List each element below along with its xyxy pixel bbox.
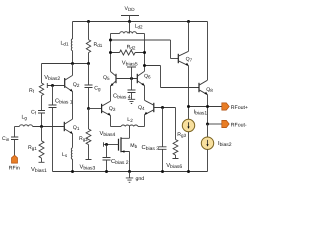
inductor Lg: [15, 115, 65, 127]
wire: bottom ground rail: [53, 171, 208, 173]
svg-text:Rf: Rf: [29, 88, 35, 94]
svg-text:Q6: Q6: [144, 74, 151, 80]
svg-text:Cbias 3: Cbias 3: [142, 144, 160, 152]
top rail (VDD): [73, 21, 208, 23]
node: Rd1 rail junction: [87, 20, 90, 23]
port RFin: [9, 140, 20, 172]
transistor Q1 (input, stage 1): [64, 119, 80, 148]
port RFout-: [222, 120, 247, 128]
capacitor Cin: [2, 127, 18, 142]
svg-text:Mb: Mb: [130, 143, 137, 149]
svg-text:Rg1: Rg1: [28, 145, 37, 151]
current source Ibias1: [182, 110, 207, 172]
svg-text:gnd: gnd: [136, 176, 145, 182]
node: Ibias1 junction on rail: [187, 170, 190, 173]
inductor Ld1: [61, 22, 73, 64]
wire: RFout+ takeoff: [189, 106, 222, 108]
wire: stage-2 output wire to Q7: [111, 40, 171, 59]
svg-text:Vbias2: Vbias2: [44, 75, 60, 82]
node: Vbias2/Cbias1 junction: [51, 84, 54, 87]
transistor Q7 (emitter follower): [171, 22, 193, 120]
transistor Q6 (cascode right): [137, 53, 151, 101]
svg-text:Q2: Q2: [73, 82, 80, 88]
node: VDD stub junction: [128, 20, 131, 23]
inductor L2 (tail, center-tapped to Mb): [111, 117, 145, 127]
port RFout+: [222, 103, 248, 111]
ground (under Cbias4): [128, 99, 135, 103]
svg-text:Ls: Ls: [62, 152, 68, 158]
node: Rd2 left junction: [109, 51, 112, 54]
node: Q3 base junction: [87, 107, 90, 110]
svg-text:Rd2: Rd2: [127, 44, 136, 50]
transistor Q3 (diff pair left): [89, 86, 116, 127]
Vbias4 terminal: [100, 131, 116, 147]
svg-text:Cf: Cf: [31, 110, 37, 116]
svg-text:Vbias3: Vbias3: [80, 164, 96, 171]
wire: Q8 base wire from Q6 collector leg: [145, 66, 200, 88]
node: Ibias2 junction: [206, 123, 209, 126]
resistor Rg1: [28, 127, 47, 175]
svg-text:RFin: RFin: [9, 166, 20, 172]
capacitor Cbias4: [113, 79, 136, 101]
node: Q7 collector junction: [187, 20, 190, 23]
inductor Ls (degeneration): [62, 148, 73, 172]
resistor Rd2: [111, 44, 145, 55]
svg-text:VDD: VDD: [125, 6, 136, 12]
node: Rd2 right junction: [143, 51, 146, 54]
resistor Rg2: [79, 109, 96, 172]
svg-text:Lg: Lg: [22, 115, 28, 121]
wire: Ld2 right leg: [144, 34, 146, 53]
svg-text:Cbias 2: Cbias 2: [111, 158, 129, 166]
svg-text:RFout+: RFout+: [231, 105, 248, 111]
transistor Q4 (diff pair right, mirrored): [138, 100, 154, 126]
node: Ls junction: [71, 170, 74, 173]
Vbias2 terminal: [44, 75, 64, 88]
transistor Q8 (output follower): [199, 80, 213, 124]
svg-text:Vbias5: Vbias5: [122, 60, 138, 67]
svg-text:Rg3: Rg3: [177, 132, 186, 138]
node: Mb source junction on rail: [128, 170, 131, 173]
transistor Mb (tail current MOSFET): [104, 127, 138, 172]
capacitor Cbias3: [142, 108, 167, 172]
node: Rg1/feedback junction on input wire: [40, 125, 43, 128]
svg-text:Q8: Q8: [206, 87, 213, 93]
resistor Rd1: [86, 22, 103, 64]
capacitor Cbias2: [103, 145, 129, 172]
resistor Rf (feedback): [29, 64, 44, 111]
svg-text:Q1: Q1: [73, 125, 80, 131]
wire: RFout- takeoff: [208, 123, 222, 125]
node: Cbias3 junction on rail: [161, 170, 164, 173]
svg-text:Cbias 1: Cbias 1: [55, 98, 73, 106]
svg-text:Ld2: Ld2: [135, 23, 143, 29]
node: left output junction: [109, 39, 112, 42]
svg-text:Q7: Q7: [186, 57, 193, 63]
node: Rd1 bottom junction: [87, 62, 90, 65]
svg-text:RFout-: RFout-: [231, 122, 247, 128]
resistor Rg3: [166, 132, 186, 170]
wire: diff-pair cascode base wire: [116, 78, 137, 80]
svg-text:Ibias2: Ibias2: [218, 141, 232, 148]
node: Cbias2 junction on rail: [105, 170, 108, 173]
wire: stage-1 output node line: [42, 63, 89, 65]
svg-text:Q5: Q5: [103, 75, 110, 81]
svg-text:Vbias4: Vbias4: [100, 131, 116, 138]
svg-text:Ibias1: Ibias1: [194, 110, 208, 117]
svg-text:L2: L2: [127, 117, 133, 123]
capacitor Cg (interstage coupling): [85, 64, 102, 109]
Vbias5 terminal: [122, 60, 138, 78]
svg-text:Q4: Q4: [138, 105, 145, 111]
current source Ibias2: [201, 124, 231, 172]
svg-text:Vbias6: Vbias6: [166, 163, 182, 170]
node: Ibias1 junction: [187, 105, 190, 108]
wire: rail right drop to Q8 collector: [207, 22, 209, 81]
capacitor Cbias1: [49, 86, 73, 172]
node: Cbias2 junction: [105, 143, 108, 146]
svg-text:Q3: Q3: [109, 106, 116, 112]
transistor Q2 (cascode, stage 1): [65, 64, 80, 120]
wire: Ld2 left leg: [110, 34, 112, 72]
node: Q8 base takeoff junction: [143, 64, 146, 67]
transistor Q5 (cascode left, mirrored): [103, 72, 116, 87]
node: Ld1 bottom junction: [71, 62, 74, 65]
VDD supply terminal: [121, 6, 139, 22]
wire: Q4 base to Rg3: [154, 108, 176, 140]
svg-text:Cg: Cg: [94, 86, 101, 92]
node: Vbias5 junction: [130, 77, 133, 80]
ground symbol: [126, 172, 144, 183]
svg-text:Vbias1: Vbias1: [31, 167, 47, 174]
node: Cbias3 junction: [161, 106, 164, 109]
svg-text:Rd1: Rd1: [94, 42, 103, 48]
svg-text:Ld1: Ld1: [61, 40, 69, 46]
svg-text:Rg2: Rg2: [79, 136, 88, 142]
svg-text:Cin: Cin: [2, 136, 10, 142]
node: Q8 emitter junction: [206, 105, 209, 108]
capacitor Cf (feedback): [31, 110, 45, 127]
inductor Ld2 (center-tapped load): [111, 22, 145, 34]
